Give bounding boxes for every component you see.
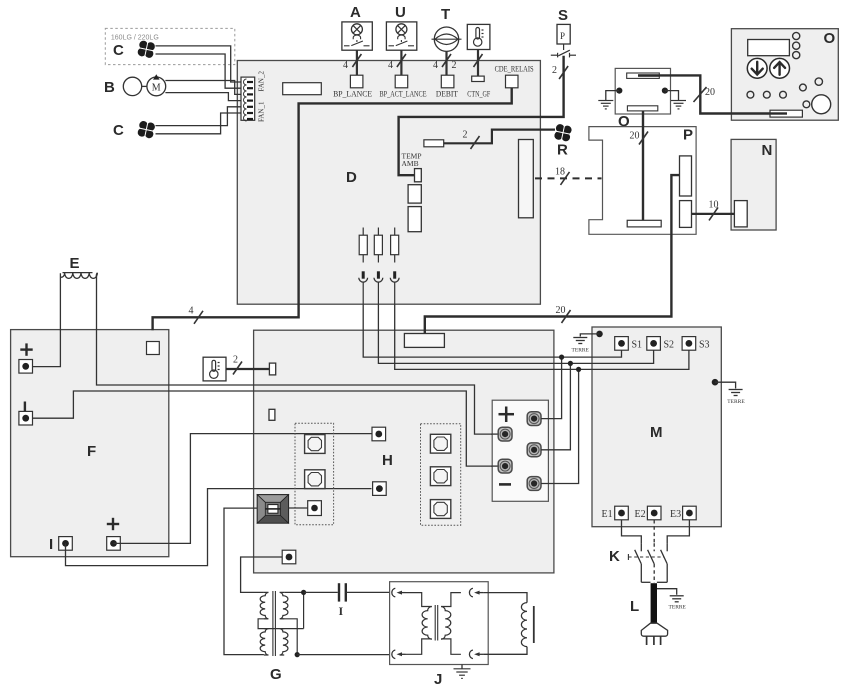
- svg-text:4: 4: [433, 60, 438, 71]
- button O up: [770, 58, 790, 78]
- wire fan C upper to FAN_2 pins: [156, 46, 242, 88]
- fan R: [553, 123, 573, 159]
- wire G series link left: [258, 619, 304, 629]
- connector N left: [734, 201, 747, 227]
- svg-text:P: P: [560, 31, 565, 41]
- connector F small square: [147, 342, 160, 355]
- wire CDE_RELAIS bus down-left-down to F ("4"): [153, 88, 512, 330]
- svg-text:T: T: [441, 6, 450, 23]
- svg-text:FAN_2: FAN_2: [258, 71, 266, 92]
- terminal E2: [635, 506, 662, 520]
- svg-text:CDE_RELAIS: CDE_RELAIS: [495, 65, 534, 74]
- svg-text:2: 2: [552, 65, 557, 76]
- wire F bottom plus to H gate terminal 1: [114, 434, 372, 544]
- output pin 3 (arrow socket): [390, 271, 399, 304]
- svg-text:U: U: [395, 4, 406, 21]
- earth (J): [454, 669, 471, 679]
- wire output right-top to node 1: [541, 357, 562, 419]
- svg-text:K: K: [609, 548, 620, 565]
- wire E3 to contactor: [667, 520, 689, 543]
- svg-text:TERRE: TERRE: [727, 399, 745, 405]
- terminal E1: [602, 506, 629, 520]
- output terminal left-bottom: [491, 459, 512, 473]
- svg-text:F: F: [87, 443, 96, 460]
- wire thermistor to H ("2"): [226, 355, 269, 375]
- node G top: [301, 590, 338, 595]
- node Q right pin: [662, 88, 668, 94]
- svg-text:E1: E1: [602, 509, 613, 520]
- IGBT group right (dotted): [421, 424, 461, 526]
- wire T to DEBIT: [433, 51, 451, 75]
- transformer G core: [273, 591, 276, 656]
- wire Q to O ("20"): [659, 75, 770, 113]
- socket J BL: [392, 650, 406, 659]
- svg-text:N: N: [762, 142, 773, 159]
- display O: [748, 40, 790, 56]
- wire motor B to FAN pins: [165, 81, 241, 101]
- inductor E: [60, 255, 97, 278]
- wire M right node to earth: [715, 382, 736, 388]
- wire S bus to TEMP_AMB: [399, 56, 568, 175]
- wire output right-bottom to node 3: [541, 369, 579, 483]
- connector O bottom: [770, 110, 802, 117]
- transformer core (heatsink block): [257, 495, 288, 523]
- terminal F bottom plus: [107, 518, 121, 550]
- sensor TEMP_AMB: [402, 152, 422, 182]
- output inductor: [521, 603, 533, 647]
- node G bottom: [295, 652, 300, 657]
- fuse F2: [374, 228, 382, 263]
- thermistor CTN: [467, 24, 490, 49]
- fuse F3: [391, 228, 399, 263]
- IGBT module 1: [305, 435, 325, 454]
- wire P to N ("10"): [692, 200, 735, 221]
- svg-text:4: 4: [388, 60, 393, 71]
- connector CTN_GF: [467, 76, 490, 98]
- svg-text:E: E: [70, 255, 80, 272]
- board D: [237, 61, 540, 305]
- wire core to terminal in left group: [289, 507, 308, 509]
- connector H left small rect: [269, 363, 275, 375]
- svg-text:S2: S2: [664, 340, 675, 351]
- svg-text:DEBIT: DEBIT: [436, 90, 458, 99]
- module J box: [390, 582, 489, 686]
- svg-text:10: 10: [709, 200, 719, 211]
- connector H top: [404, 334, 444, 348]
- wire J to earth: [461, 665, 463, 669]
- terminal S1: [615, 337, 642, 351]
- node 1: [559, 355, 564, 360]
- pressure switch S: [551, 7, 576, 57]
- component rect D (lower): [408, 207, 421, 232]
- svg-text:20: 20: [630, 131, 640, 142]
- svg-text:L: L: [630, 598, 639, 615]
- wire D pin3 to S3 bus: [395, 304, 689, 369]
- component rect D (below TEMP_AMB): [408, 185, 421, 203]
- wire M top-left node to earth: [580, 334, 599, 337]
- button O down: [747, 58, 767, 78]
- board H: [254, 330, 554, 573]
- svg-text:BP_LANCE: BP_LANCE: [333, 90, 372, 99]
- svg-text:18: 18: [555, 167, 565, 178]
- wire G bottom to J: [297, 654, 393, 656]
- wire E2 to contactor: [653, 520, 655, 543]
- terminal (small, in left group): [308, 501, 322, 516]
- output terminal right-top: [527, 412, 541, 426]
- svg-text:S3: S3: [699, 340, 710, 351]
- wire fan C lower to FAN_1 pins: [156, 107, 242, 134]
- node 3: [576, 367, 581, 372]
- transformer G winding BL: [260, 629, 268, 655]
- wire cord to earth: [657, 589, 677, 595]
- node 2: [568, 361, 573, 366]
- output terminal left-top: [491, 427, 512, 441]
- svg-text:I: I: [339, 604, 344, 618]
- wire output right-mid to node 2: [541, 363, 570, 449]
- transformer G winding TL: [260, 592, 268, 618]
- ground (Q left): [598, 101, 613, 109]
- svg-text:J: J: [434, 671, 442, 686]
- svg-text:S1: S1: [632, 340, 643, 351]
- IGBT module 3: [430, 434, 450, 453]
- socket J TL: [392, 588, 406, 597]
- board N: [731, 139, 776, 230]
- terminal F bottom I: [49, 536, 72, 553]
- connector BP_ACT_LANCE: [380, 75, 427, 98]
- mains plug: [641, 623, 667, 645]
- gate terminal 3: [282, 550, 296, 564]
- knob O: [812, 95, 831, 114]
- wire D pin1 to S1 bus: [363, 304, 621, 357]
- wire G TR top to capacitor node: [284, 592, 303, 628]
- transformer G winding BR: [270, 629, 288, 683]
- svg-text:FAN_1: FAN_1: [258, 101, 266, 122]
- connector P right upper: [680, 156, 692, 196]
- transformer G winding TR: [280, 592, 288, 618]
- earth TERRE (cord): [669, 596, 687, 611]
- ribbon cable 18 (dashed) D to P: [535, 167, 602, 185]
- power cord L: [630, 583, 657, 623]
- IGBT group left (dotted): [295, 423, 334, 525]
- output block (+/-): [492, 400, 548, 501]
- wire Q left pin to ground: [606, 91, 620, 101]
- wire D pin2 to S2 bus: [378, 304, 653, 363]
- svg-text:C: C: [113, 42, 124, 59]
- connector rect D mid (to fan R): [424, 140, 444, 147]
- terminal F minus: [19, 402, 33, 426]
- wire J BR to secondary: [441, 639, 461, 654]
- wire A to BP_LANCE: [343, 50, 361, 75]
- connector H small rect 2: [269, 409, 275, 420]
- capacitor I: [339, 583, 346, 618]
- transformer J primary: [422, 607, 432, 640]
- connector DEBIT: [436, 75, 458, 98]
- ground (Q right): [671, 101, 686, 109]
- svg-text:TERRE: TERRE: [669, 605, 687, 611]
- wire E1 to contactor: [622, 520, 642, 543]
- svg-text:2: 2: [463, 130, 468, 141]
- svg-text:2: 2: [233, 355, 238, 366]
- output pin 1 (arrow socket): [359, 271, 368, 304]
- connector P bottom: [627, 220, 661, 227]
- leds O: [793, 32, 800, 58]
- output terminal right-mid: [527, 443, 541, 457]
- svg-text:20: 20: [705, 87, 715, 98]
- svg-text:I: I: [49, 536, 53, 553]
- wire Q right pin to ground: [665, 91, 679, 101]
- connector tall rect D right: [519, 140, 534, 218]
- svg-text:A: A: [350, 4, 361, 21]
- IGBT module 5: [430, 500, 450, 519]
- wire CTN to CTN_GF: [452, 50, 483, 77]
- wire gate terminal 3 to transformer G top: [241, 557, 283, 592]
- svg-text:R: R: [557, 142, 568, 159]
- svg-text:E3: E3: [670, 509, 681, 520]
- svg-text:AMB: AMB: [402, 159, 419, 168]
- wire U to BP_ACT_LANCE: [388, 50, 406, 75]
- svg-text:20: 20: [556, 305, 566, 316]
- output terminal right-bottom: [527, 477, 541, 491]
- svg-text:D: D: [346, 169, 357, 186]
- wire J TL to primary: [406, 593, 432, 607]
- wire Q bottom to P connector ("20"): [630, 111, 649, 220]
- earth TERRE (M top-left): [572, 338, 590, 354]
- module P outline: [589, 127, 696, 235]
- module Q: [615, 68, 670, 130]
- gate terminal 2: [373, 482, 387, 496]
- thermistor box (heatsink sensor): [203, 357, 226, 381]
- wire J TR out to inductor: [483, 593, 527, 603]
- transformer J core: [435, 605, 438, 641]
- transformer J secondary: [441, 607, 451, 640]
- IGBT module 2: [305, 470, 325, 489]
- svg-text:CTN_GF: CTN_GF: [467, 90, 490, 99]
- pushbutton U: [386, 4, 416, 50]
- flow sensor T: [432, 6, 462, 51]
- svg-text:TERRE: TERRE: [572, 348, 590, 354]
- svg-text:C: C: [113, 122, 124, 139]
- wire G series link right: [280, 619, 297, 655]
- wire D to fan R ("2"): [444, 130, 555, 150]
- earth TERRE (M right): [727, 390, 745, 405]
- connector FAN_1 / FAN_2: [241, 71, 266, 122]
- option box 160LG / 220LG: [105, 28, 235, 64]
- node M right: [712, 379, 719, 386]
- fuse F1: [359, 228, 367, 263]
- svg-text:G: G: [270, 666, 282, 683]
- terminal S3: [682, 337, 709, 351]
- svg-text:O: O: [824, 30, 836, 47]
- board O control panel: [731, 29, 838, 121]
- wire core left to transformer G: [224, 508, 264, 654]
- svg-text:S: S: [558, 7, 568, 24]
- wire inductor to J BR: [483, 647, 527, 655]
- pushbutton A: [342, 4, 372, 50]
- terminal E3: [670, 506, 696, 520]
- connector CDE_RELAIS: [495, 65, 534, 88]
- svg-text:H: H: [382, 452, 393, 469]
- node Q left pin: [616, 88, 622, 94]
- svg-text:B: B: [104, 79, 115, 96]
- svg-text:M: M: [152, 82, 161, 93]
- svg-text:M: M: [650, 424, 663, 441]
- wire J TR to secondary: [441, 593, 461, 607]
- contactor K: [609, 543, 667, 583]
- svg-text:160LG / 220LG: 160LG / 220LG: [111, 35, 159, 42]
- fan C (lower): [113, 120, 156, 140]
- svg-text:4: 4: [343, 60, 348, 71]
- wire F minus to plus block left-bottom terminal: [32, 391, 498, 466]
- motor B: [104, 74, 166, 96]
- socket J BR: [469, 650, 483, 659]
- output pin 2 (arrow socket): [374, 271, 383, 304]
- svg-text:4: 4: [189, 306, 194, 317]
- connector P right lower: [680, 201, 692, 228]
- svg-text:P: P: [683, 127, 693, 144]
- gate terminal 1: [372, 427, 386, 441]
- socket J TR: [469, 588, 483, 597]
- connector BP_LANCE: [333, 75, 372, 98]
- svg-text:BP_ACT_LANCE: BP_ACT_LANCE: [380, 90, 427, 99]
- svg-text:E2: E2: [635, 509, 646, 520]
- board M: [592, 327, 721, 527]
- svg-text:2: 2: [452, 60, 457, 71]
- fan C (upper): [113, 39, 156, 59]
- board F: [11, 330, 169, 557]
- wire E right to plus block left-top terminal: [97, 276, 499, 434]
- terminal S2: [647, 337, 674, 351]
- node M top-left: [596, 331, 603, 338]
- connector small rect top-left of D: [283, 83, 322, 95]
- wire capacitor to J: [346, 591, 392, 593]
- buttons O bottom row: [747, 78, 823, 108]
- terminal F plus (top): [19, 343, 33, 373]
- wire J BL to primary: [406, 639, 432, 654]
- wire F bottom I to H gate terminal 2: [66, 489, 372, 566]
- wire P to H ("20"): [425, 175, 680, 333]
- IGBT module 4: [430, 467, 450, 486]
- wire E left to F + terminal: [32, 273, 60, 366]
